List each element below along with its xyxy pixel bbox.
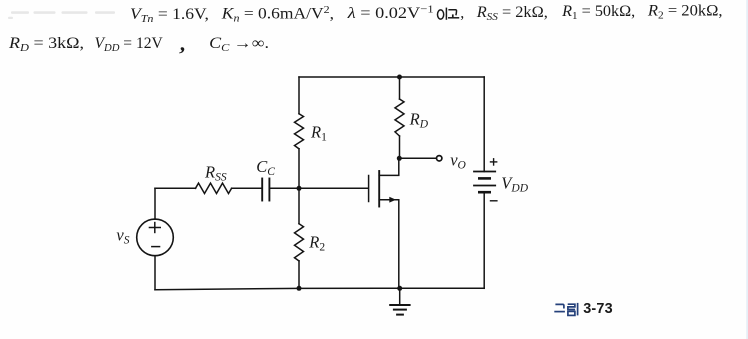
battery VDD plates (473, 172, 496, 193)
label equation c5 (561, 3, 635, 22)
transistor M1 gate bar (368, 176, 370, 202)
svg-text:VTn = 1.6V,: VTn = 1.6V, (130, 5, 209, 25)
wire CC to gate (269, 187, 367, 189)
wire R2 bottom (298, 261, 300, 288)
junction dot gate node (297, 186, 302, 191)
wire battery bottom (483, 192, 485, 288)
svg-text:RSS: RSS (204, 162, 227, 183)
svg-text:vS: vS (116, 226, 129, 247)
svg-text:vO: vO (450, 150, 466, 171)
wire RD bottom (399, 136, 401, 158)
wire bottom rail (155, 288, 484, 290)
svg-text:Kn = 0.6mA/V2,: Kn = 0.6mA/V2, (221, 4, 334, 24)
wire ground stub (399, 288, 401, 305)
source vs plus (149, 222, 161, 233)
svg-text:λ = 0.02V−1: λ = 0.02V−1 (347, 2, 434, 21)
ground (389, 305, 410, 315)
scan ghost marks (8, 11, 115, 19)
resistor RSS body (196, 183, 232, 193)
junction dot ground node (397, 286, 402, 291)
svg-text:R2: R2 (308, 233, 325, 254)
svg-text:RD: RD (409, 110, 429, 131)
wire output (399, 157, 436, 159)
label equation c4 (476, 4, 548, 23)
battery plus (490, 158, 498, 166)
transistor M1 source arrow (389, 197, 396, 203)
svg-text:,: , (460, 5, 464, 22)
svg-text:R1 = 50kΩ,: R1 = 50kΩ, (561, 3, 635, 22)
junction dot drain node (397, 156, 402, 161)
wire RD top (399, 77, 401, 99)
resistor RD body (395, 99, 404, 136)
wire input left (155, 187, 196, 189)
svg-text:R2 = 20kΩ,: R2 = 20kΩ, (647, 1, 723, 22)
svg-text:VDD = 12V: VDD = 12V (95, 35, 164, 54)
wire vs top (154, 188, 156, 219)
junction dot top rail (397, 75, 402, 80)
caption geurim glyphs (554, 303, 577, 316)
battery minus (490, 200, 498, 202)
svg-text:RD = 3kΩ,: RD = 3kΩ, (8, 34, 84, 54)
wire top rail (299, 76, 484, 78)
wire RSS to CC (232, 187, 263, 189)
korean igo (438, 8, 460, 20)
wire R2 top (298, 188, 300, 223)
svg-text:3-73: 3-73 (583, 301, 613, 317)
terminal vo (437, 156, 442, 161)
resistor R2 body (295, 224, 304, 261)
label equation c2 (221, 4, 334, 24)
wire R1 top (298, 77, 300, 114)
junction dot R2 bottom (297, 286, 302, 291)
capacitor CC plates (262, 179, 269, 201)
label equation d3 (209, 34, 269, 54)
label equation c1 (130, 5, 209, 25)
svg-text:VDD: VDD (501, 174, 528, 195)
svg-text:RSS = 2kΩ,: RSS = 2kΩ, (476, 4, 548, 23)
svg-text:R1: R1 (310, 123, 327, 144)
label equation c3 (347, 2, 434, 21)
source vs minus (151, 246, 160, 248)
svg-text:CC: CC (256, 157, 275, 178)
label equation c6 (647, 1, 723, 22)
transistor M1 channel bar (378, 171, 380, 207)
svg-text:,: , (179, 30, 189, 56)
label equation d2 (95, 35, 164, 54)
transistor M1 drain lead (379, 158, 399, 175)
label equation d1 (8, 34, 84, 54)
svg-text:CC →∞.: CC →∞. (209, 34, 269, 54)
wire vs bottom (154, 256, 156, 290)
wire battery top (483, 77, 485, 172)
resistor R1 body (295, 114, 304, 149)
page edge (746, 0, 748, 339)
source vs circle (137, 219, 174, 256)
wire R1 bottom (298, 149, 300, 189)
transistor M1 source lead (379, 200, 399, 289)
